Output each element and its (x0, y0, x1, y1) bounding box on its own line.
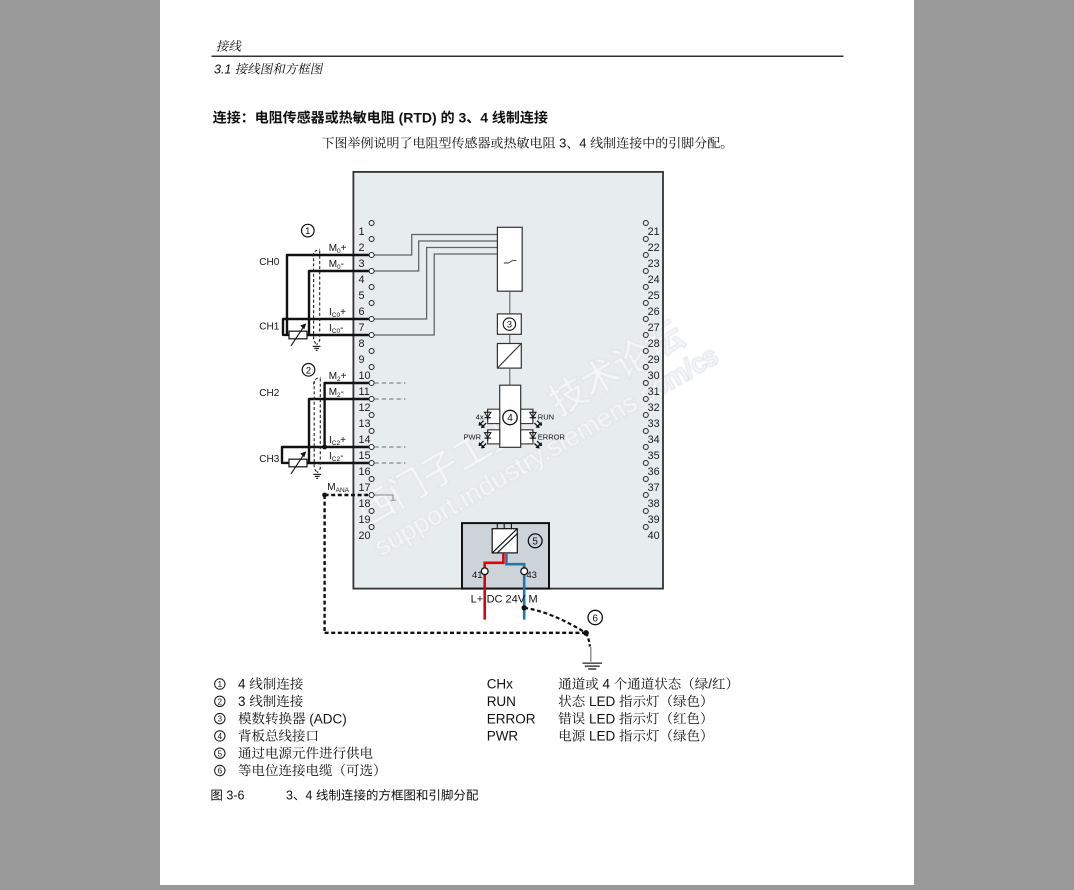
svg-text:22: 22 (648, 242, 660, 254)
svg-text:10: 10 (359, 370, 371, 382)
svg-text:(ADC): (ADC) (306, 711, 347, 726)
backplane bus interface block 4 (500, 385, 521, 447)
svg-text:5: 5 (532, 537, 538, 548)
RTD sensor B2 at CH3 (289, 451, 307, 474)
multiplexer block (497, 227, 522, 291)
svg-text:IC0-: IC0- (329, 323, 343, 335)
callout 1 (302, 224, 315, 237)
svg-text:14: 14 (359, 434, 371, 446)
body paragraph (322, 137, 334, 149)
svg-text:RUN: RUN (487, 694, 516, 709)
wire ICO+ terminal 6 (283, 319, 372, 335)
svg-text:ERROR: ERROR (487, 711, 536, 726)
svg-text:30: 30 (648, 370, 660, 382)
svg-text:20: 20 (359, 530, 371, 542)
svg-text:4x: 4x (476, 412, 484, 421)
svg-text:4: 4 (507, 413, 513, 424)
svg-text:LED: LED (585, 729, 619, 744)
svg-text:26: 26 (648, 306, 660, 318)
DC/DC converter (492, 529, 517, 553)
LED RUN (530, 410, 536, 421)
svg-text:4: 4 (480, 109, 492, 125)
wire IC2+ terminal 14 (282, 447, 372, 463)
svg-text:/: / (708, 677, 712, 692)
running header italic: 接线 (217, 40, 230, 52)
svg-text:2: 2 (306, 365, 311, 376)
svg-text:MANA: MANA (327, 482, 349, 494)
ADC block 3 (497, 314, 521, 334)
svg-text:11: 11 (359, 386, 370, 398)
svg-text:IC0+: IC0+ (329, 307, 346, 319)
LED tab right bottom (521, 430, 533, 444)
wire M blue (506, 553, 524, 620)
legend callout 6 (215, 765, 225, 775)
svg-text:38: 38 (648, 498, 660, 510)
wire L+ red (485, 553, 504, 620)
legend desc CHx (559, 678, 572, 690)
svg-text:M0+: M0+ (329, 243, 347, 255)
DC/DC top pins (497, 523, 511, 529)
legend text 5 (238, 747, 251, 759)
svg-text:PWR: PWR (464, 433, 482, 442)
bold heading (213, 110, 227, 123)
wire mux to ADC (509, 291, 511, 314)
svg-text:32: 32 (648, 402, 660, 414)
svg-text:6: 6 (218, 767, 223, 776)
isolation block (497, 344, 521, 369)
svg-text:6: 6 (592, 613, 598, 624)
svg-text:43: 43 (526, 570, 537, 581)
svg-text:3-6: 3-6 (223, 789, 245, 803)
signal wire t2 to mux (374, 235, 498, 256)
svg-text:3: 3 (507, 320, 512, 331)
svg-text:1: 1 (359, 226, 365, 238)
svg-text:37: 37 (648, 482, 660, 494)
svg-text:34: 34 (648, 434, 660, 446)
wire MANA terminal 17 dashed (325, 494, 372, 496)
svg-text:M: M (529, 594, 538, 606)
svg-text:1: 1 (305, 226, 310, 237)
svg-text:15: 15 (359, 450, 371, 462)
signal wire t6 to mux (374, 248, 498, 320)
svg-text:39: 39 (648, 514, 660, 526)
equipotential bonding cable vertical (323, 495, 325, 633)
svg-text:CH0: CH0 (259, 257, 279, 268)
wire ADC to isolation (509, 334, 511, 343)
svg-text:3: 3 (218, 715, 223, 724)
svg-text:23: 23 (648, 258, 660, 270)
svg-text:5: 5 (359, 290, 365, 302)
multiplexer switch symbol (504, 260, 517, 263)
legend callout 4 (215, 731, 225, 741)
svg-text:3.1: 3.1 (214, 62, 235, 76)
svg-text:3: 3 (556, 136, 567, 151)
svg-text:3: 3 (359, 258, 365, 270)
terminal connection circles (369, 253, 374, 498)
header rule (212, 56, 844, 57)
svg-text:41: 41 (472, 570, 483, 581)
pin circles right 21-40 (643, 221, 648, 530)
legend callout 2 (215, 696, 225, 706)
svg-text:29: 29 (648, 354, 660, 366)
cable shield CH2 (314, 377, 321, 473)
svg-text:IC2-: IC2- (329, 451, 343, 463)
svg-text:33: 33 (648, 418, 660, 430)
ground stem (590, 647, 592, 662)
svg-text:(RTD): (RTD) (395, 109, 441, 125)
svg-text:19: 19 (359, 514, 371, 526)
svg-text:40: 40 (648, 530, 660, 542)
LED tab left bottom (488, 430, 500, 444)
svg-text:LED: LED (585, 711, 619, 726)
svg-text:36: 36 (648, 466, 660, 478)
legend callout 5 (215, 748, 225, 758)
svg-text:3: 3 (455, 109, 467, 125)
equipotential cable curve (524, 608, 586, 633)
callout 6 (588, 610, 602, 624)
legend text 4 (239, 729, 251, 741)
legend desc ERROR (558, 712, 571, 724)
terminal 43 (521, 568, 528, 575)
legend desc RUN (559, 695, 572, 707)
wire IC2- terminal 15 (307, 462, 372, 464)
svg-text:8: 8 (359, 338, 365, 350)
pin numbers 21-40 (648, 226, 660, 542)
wire M0+ terminal 2 (287, 255, 372, 335)
svg-text:27: 27 (648, 322, 660, 334)
svg-text:4: 4 (599, 677, 614, 692)
wire isolation to backplane (509, 368, 511, 385)
cable shield ground CH0 (313, 346, 321, 350)
node MANA junction (322, 493, 327, 498)
svg-text:31: 31 (648, 386, 660, 398)
svg-text:RUN: RUN (538, 412, 554, 421)
watermark (0, 0, 1, 1)
junction M2+/IC2+ (322, 445, 327, 450)
svg-text:4: 4 (306, 789, 316, 803)
callout 2 (302, 364, 315, 377)
legend text 3 (238, 712, 251, 724)
svg-text:CH3: CH3 (259, 454, 279, 465)
svg-text:13: 13 (359, 418, 371, 430)
pin numbers 1-20 (359, 226, 371, 542)
LED tab left top (488, 409, 500, 423)
svg-text:4: 4 (218, 732, 223, 741)
node M junction (522, 605, 527, 610)
LED CHx 4x (485, 410, 491, 421)
svg-text:LED: LED (585, 694, 619, 709)
module box outline (353, 172, 663, 589)
terminal 41 (481, 568, 488, 575)
module box fill (353, 172, 663, 589)
svg-text:35: 35 (648, 450, 660, 462)
svg-text:24: 24 (648, 274, 660, 286)
svg-text:16: 16 (359, 466, 371, 478)
svg-text:7: 7 (359, 322, 365, 334)
earth ground symbol (583, 663, 603, 669)
power supply element box fill (462, 523, 549, 589)
cable shield ground CH2 (313, 474, 321, 478)
svg-text:M0-: M0- (329, 259, 344, 271)
wire M2- terminal 11 (309, 399, 372, 463)
legend callout 3 (215, 713, 225, 723)
LED PWR (485, 430, 491, 441)
figure caption (211, 790, 221, 801)
svg-text:25: 25 (648, 290, 660, 302)
svg-text:18: 18 (359, 498, 371, 510)
internal stub at terminal 17 (374, 495, 396, 500)
nc stubs terminals 10 11 14 15 (374, 383, 405, 463)
signal wire t3 to mux (374, 241, 498, 271)
wire M2+ terminal 10 (325, 383, 372, 447)
svg-text:CH1: CH1 (259, 322, 279, 333)
svg-text:3: 3 (238, 694, 249, 709)
callout 4 (503, 410, 517, 424)
legend callout 1 (215, 679, 225, 689)
power element outline (462, 523, 549, 589)
svg-text:2: 2 (218, 697, 223, 706)
callout 5 (528, 534, 542, 548)
cable shield CH0 (313, 249, 320, 344)
wire ICO- terminal 7 (307, 334, 372, 336)
LED tab right top (521, 409, 533, 423)
svg-text:IC2+: IC2+ (329, 435, 346, 447)
svg-text:9: 9 (359, 354, 365, 366)
legend text 6 (239, 764, 251, 776)
callout 3 (503, 318, 515, 330)
pin circles left 1-20 (369, 221, 374, 530)
svg-text:17: 17 (359, 482, 371, 494)
svg-text:M2+: M2+ (329, 371, 347, 383)
signal wire t7 to mux (374, 254, 498, 335)
LED ERROR (530, 430, 536, 441)
svg-text:3: 3 (286, 789, 293, 803)
svg-text:ERROR: ERROR (538, 433, 566, 442)
svg-text:4: 4 (238, 677, 249, 692)
equipotential bonding cable horizontal (325, 632, 586, 634)
svg-text:4: 4 (579, 136, 590, 151)
svg-text:28: 28 (648, 338, 660, 350)
svg-text:1: 1 (218, 680, 223, 689)
equipotential cable tail (586, 633, 590, 647)
wire M0- terminal 3 (309, 271, 372, 335)
svg-text:21: 21 (648, 226, 660, 238)
svg-text:PWR: PWR (487, 729, 519, 744)
svg-text:6: 6 (359, 306, 365, 318)
svg-text:2: 2 (359, 242, 365, 254)
svg-text:5: 5 (218, 749, 223, 758)
svg-text:DC 24V: DC 24V (487, 594, 526, 606)
RTD sensor B1 at CH1 (289, 323, 307, 346)
node equipotential junction (583, 630, 589, 636)
svg-text:L+: L+ (471, 594, 484, 606)
svg-text:CHx: CHx (487, 677, 513, 692)
svg-text:CH2: CH2 (259, 388, 279, 399)
svg-text:4: 4 (359, 274, 365, 286)
legend desc PWR (560, 729, 571, 741)
svg-text:12: 12 (359, 402, 371, 414)
svg-text:M2-: M2- (329, 387, 344, 399)
